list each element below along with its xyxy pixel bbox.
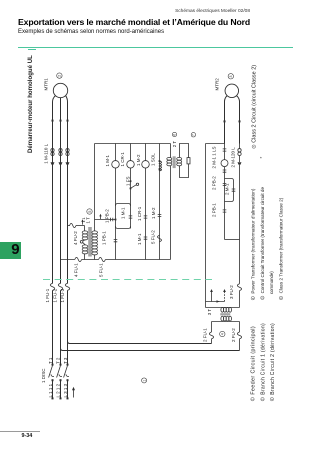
contact 1PB-1 [114, 240, 118, 242]
wire number arrow 11 [82, 221, 84, 225]
svg-text:2 M-1: 2 M-1 [225, 183, 230, 195]
svg-text:T 2: T 2 [56, 357, 61, 364]
contact 1M-1 maintaining [129, 216, 133, 218]
dashed separator line [43, 279, 212, 281]
svg-text:1 M-110 L: 1 M-110 L [43, 143, 48, 163]
terminal clamp pole1 [51, 162, 55, 165]
wire 2T primary leads [170, 144, 172, 260]
terminal clamp branch2 [238, 162, 242, 165]
sidebar teal dash [28, 49, 36, 50]
sidebar rotated title [27, 55, 34, 153]
wire branch2 right [239, 144, 241, 308]
circled number 1 feeder circuit [142, 378, 147, 383]
wire 2FU-2 column [239, 322, 241, 351]
incoming supply arrow [73, 390, 75, 398]
svg-text:2 M-1 1 LS: 2 M-1 1 LS [211, 146, 216, 168]
contact 1LS [223, 149, 227, 151]
wire motor1 right lead [66, 96, 68, 120]
legend circled numbers [251, 145, 283, 401]
ground arrows horizontal [206, 301, 225, 303]
maintaining loop top connector [116, 204, 131, 206]
svg-text:L 2 1 2: L 2 1 2 [55, 383, 60, 397]
wire motor2 left lead [225, 96, 228, 144]
fuse 3FU-2 [237, 284, 241, 291]
transformer 2T right winding [177, 157, 182, 160]
transformer 1T secondary winding [92, 231, 98, 234]
overload heater 1M-110L pole3 [66, 149, 69, 152]
ground arrow mid arrowhead [217, 300, 220, 302]
node T1 dot [52, 120, 54, 122]
disconnect switch blade pole2 [57, 366, 62, 378]
chapter tab 9 [0, 242, 21, 259]
contact 1M-1 lower [144, 237, 148, 239]
wire 1T primary top stub [84, 226, 86, 232]
ground arrow dashed [224, 292, 226, 302]
fuse 1FU-1 [50, 283, 54, 290]
svg-text:4 FU-1: 4 FU-1 [74, 263, 79, 277]
wire phase L2 lower [60, 290, 62, 364]
fuse 2FU-2 [237, 332, 241, 339]
svg-text:5 FU-1: 5 FU-1 [99, 263, 104, 277]
svg-text:1 PB-2: 1 PB-2 [104, 209, 109, 223]
terminal clamp pole3 [66, 162, 70, 165]
overload heater 1M-110L pole1 [51, 149, 54, 152]
svg-text:1 FS: 1 FS [125, 176, 130, 186]
circled number 4 at transformer 3T fuses [220, 331, 225, 336]
feeder horizontal to 2FU-2 [61, 348, 240, 350]
node disconnect bottom dots [52, 379, 54, 381]
svg-text:1 M-1: 1 M-1 [105, 155, 110, 167]
left rail [94, 144, 96, 220]
svg-text:1 1: 1 1 [82, 218, 86, 223]
wire 1T primary bottom to bus [84, 254, 86, 260]
wire secondary feed to PB rung [95, 219, 116, 221]
terminal ticks below coil [223, 170, 227, 172]
svg-text:2 M-120 L: 2 M-120 L [230, 147, 235, 168]
svg-text:1 M-1: 1 M-1 [137, 233, 142, 245]
maintaining loop 2M-1 [225, 179, 234, 202]
coil 1M-1 circle [112, 161, 120, 169]
node disconnect top dots [52, 364, 54, 366]
svg-text:MTR2: MTR2 [214, 78, 219, 91]
disconnect switch blade pole3 [64, 366, 69, 378]
node T2 dot [60, 120, 62, 122]
svg-text:3 T: 3 T [207, 309, 212, 316]
svg-text:L 3 1 3: L 3 1 3 [63, 383, 68, 397]
svg-text:Branch Circuit 1 (dérivation): Branch Circuit 1 (dérivation) [260, 323, 266, 395]
subtitle [18, 29, 164, 35]
node line end dots [52, 397, 54, 399]
transformer 3T top wire [206, 307, 240, 309]
control top bus [95, 143, 171, 145]
circled number 2 at motor MTR1 [57, 73, 62, 78]
contact 2PB-2 [223, 183, 227, 185]
svg-text:L 1 1 1: L 1 1 1 [48, 383, 53, 397]
disconnect switch blade pole1 [49, 366, 54, 378]
svg-text:5: 5 [88, 211, 92, 213]
transformer 1T primary tap circle [80, 241, 83, 244]
svg-text:2 PB-1: 2 PB-1 [211, 203, 216, 217]
title [18, 17, 250, 27]
svg-text:Power Transformer (transformat: Power Transformer (transformateur d’alim… [251, 188, 256, 293]
node junction PB rung [115, 219, 117, 221]
wire phase L2 upper [60, 120, 62, 284]
maintaining loop bottom connector [116, 226, 131, 228]
svg-text:1 FU-2: 1 FU-2 [53, 288, 58, 302]
svg-text:6: 6 [173, 134, 177, 136]
fuse 1FU-2 [58, 283, 62, 290]
svg-text:1 T: 1 T [85, 217, 90, 224]
header small text [0, 9, 250, 14]
svg-text:MTR1: MTR1 [44, 78, 49, 91]
svg-text:1 M-2: 1 M-2 [151, 207, 156, 219]
footer page number [22, 433, 33, 439]
svg-text:1 CR-1: 1 CR-1 [137, 206, 142, 221]
wire incoming L2 [60, 381, 62, 398]
coil column 1M-2 [145, 144, 147, 260]
svg-text:4: 4 [221, 333, 225, 335]
circled number 6 at transformer 2T [172, 132, 176, 136]
wire 1T secondary bottom to bus [94, 255, 96, 260]
svg-text:2 PB-2: 2 PB-2 [211, 176, 216, 190]
wire motor1 middle lead [60, 98, 62, 120]
wire phase L1 upper [52, 120, 54, 284]
contact 1CR-1 [144, 216, 148, 218]
transformer 3T bottom winding [221, 316, 224, 321]
wire branch2 bottom link [225, 239, 240, 241]
wire 1T secondary top to rail [94, 220, 96, 232]
circled number 7 at class 2 circuit [191, 133, 195, 137]
fuse 1FU-3 [65, 283, 69, 290]
contact 1M-2 [158, 214, 162, 216]
control bottom bus [61, 259, 171, 261]
svg-text:1 FU-1: 1 FU-1 [45, 288, 50, 302]
wire motor2 right lead [237, 96, 240, 144]
svg-text:Branch Circuit 2 (dérivation): Branch Circuit 2 (dérivation) [270, 323, 276, 395]
coil column 1CR-1 [130, 144, 132, 229]
svg-text:3 FU-2: 3 FU-2 [229, 285, 234, 299]
svg-text:1 PB-1: 1 PB-1 [102, 231, 107, 245]
overload heater 1M-110L pole2 [59, 149, 62, 152]
svg-text:commande): commande) [269, 271, 274, 294]
svg-text:T 1: T 1 [48, 357, 53, 364]
pilot element rect [187, 158, 190, 164]
svg-text:Class 2 Transformer (transform: Class 2 Transformer (transformateur Clas… [279, 197, 284, 293]
svg-text:1 M-2: 1 M-2 [136, 154, 141, 166]
wire number arrow PB rung [100, 216, 102, 219]
svg-text:1 FU-3: 1 FU-3 [60, 288, 65, 302]
svg-text:Class 2 Circuit (circuit Class: Class 2 Circuit (circuit Classe 2) [252, 65, 258, 143]
wire 2FU-1 column [211, 322, 213, 344]
wire phase L3 upper [67, 120, 69, 284]
fuse 4FU-2 [70, 223, 76, 227]
svg-text:*: * [259, 157, 264, 159]
solenoid 1SOL symbol [159, 160, 161, 162]
wire 2T secondary loop [180, 144, 189, 178]
transformer 2T left winding [167, 157, 172, 160]
transformer 3T core [220, 313, 230, 315]
fuse 5FU-2 [158, 235, 162, 241]
circled number 5 at transformer 1T [87, 209, 92, 214]
wire motor1 left lead [53, 96, 56, 120]
fuse 4FU-1 [75, 257, 82, 261]
svg-text:7: 7 [192, 134, 196, 136]
wire phase L1 lower [52, 290, 54, 364]
coil 2M-1 circle [221, 160, 228, 167]
transformer 1T core [88, 227, 92, 257]
ground arrow solid [211, 292, 213, 302]
footer rule [0, 430, 40, 433]
circled number 3 at motor MTR2 [228, 74, 233, 79]
svg-text:2 T: 2 T [172, 141, 177, 148]
solenoid column [159, 144, 161, 260]
svg-text:3: 3 [229, 75, 233, 77]
svg-text:2 FU-1: 2 FU-1 [203, 328, 208, 342]
svg-text:Control Circuit Transformer (t: Control Circuit Transformer (transformat… [260, 187, 265, 294]
svg-text:T 3: T 3 [63, 357, 68, 364]
svg-text:1 DISC: 1 DISC [41, 368, 46, 383]
teal rule [18, 46, 293, 49]
motor M1 circle MTR1 [53, 83, 67, 97]
wire incoming L3 [67, 381, 69, 398]
coil column 1M-1 [115, 144, 117, 260]
contact 1PB-2 [111, 218, 113, 222]
fuse 2FU-1 [209, 332, 213, 339]
contact 2PB-1 [223, 210, 227, 212]
right control bus [205, 144, 207, 308]
svg-text:1 SOL: 1 SOL [151, 153, 156, 166]
svg-text:1: 1 [142, 380, 146, 382]
top link to branch2 [206, 143, 225, 145]
node T3 dot [67, 120, 69, 122]
svg-text:2 FU-2: 2 FU-2 [231, 328, 236, 342]
node motor2 dots [224, 120, 226, 122]
contact 2M-1 [232, 189, 236, 191]
svg-text:1 M-1: 1 M-1 [121, 207, 126, 219]
wire branch2 left [224, 144, 226, 240]
float switch 1FS [130, 180, 132, 182]
svg-text:5 FU-2: 5 FU-2 [150, 230, 155, 244]
wire phase L3 lower [67, 290, 69, 364]
fuse 5FU-1 [99, 257, 106, 261]
coil 1CR-1 circle [127, 161, 135, 169]
motor M2 circle MTR2 [225, 84, 239, 98]
transformer 3T bottom wire [212, 321, 240, 323]
terminal clamp pole2 [59, 162, 63, 165]
transformer 1T primary winding [82, 231, 88, 234]
svg-text:2: 2 [58, 75, 62, 77]
transformer 2T core [173, 156, 176, 168]
wire tap phase3 to 1T primary (with fuse 4FU-2) [68, 225, 71, 227]
svg-text:4 FU-2: 4 FU-2 [73, 231, 78, 245]
overload heater 2M-120L [238, 149, 241, 152]
wire incoming L1 [52, 381, 54, 398]
legend text lines [250, 65, 283, 395]
feeder horizontal to 2FU-1 [68, 341, 212, 343]
coil 1M-2 circle [142, 161, 150, 169]
svg-text:Feeder Circuit (principal): Feeder Circuit (principal) [250, 326, 256, 395]
transformer 3T top winding [221, 307, 224, 312]
schematic labels (rotated) [41, 78, 264, 398]
svg-text:1 CR-1: 1 CR-1 [120, 152, 125, 167]
